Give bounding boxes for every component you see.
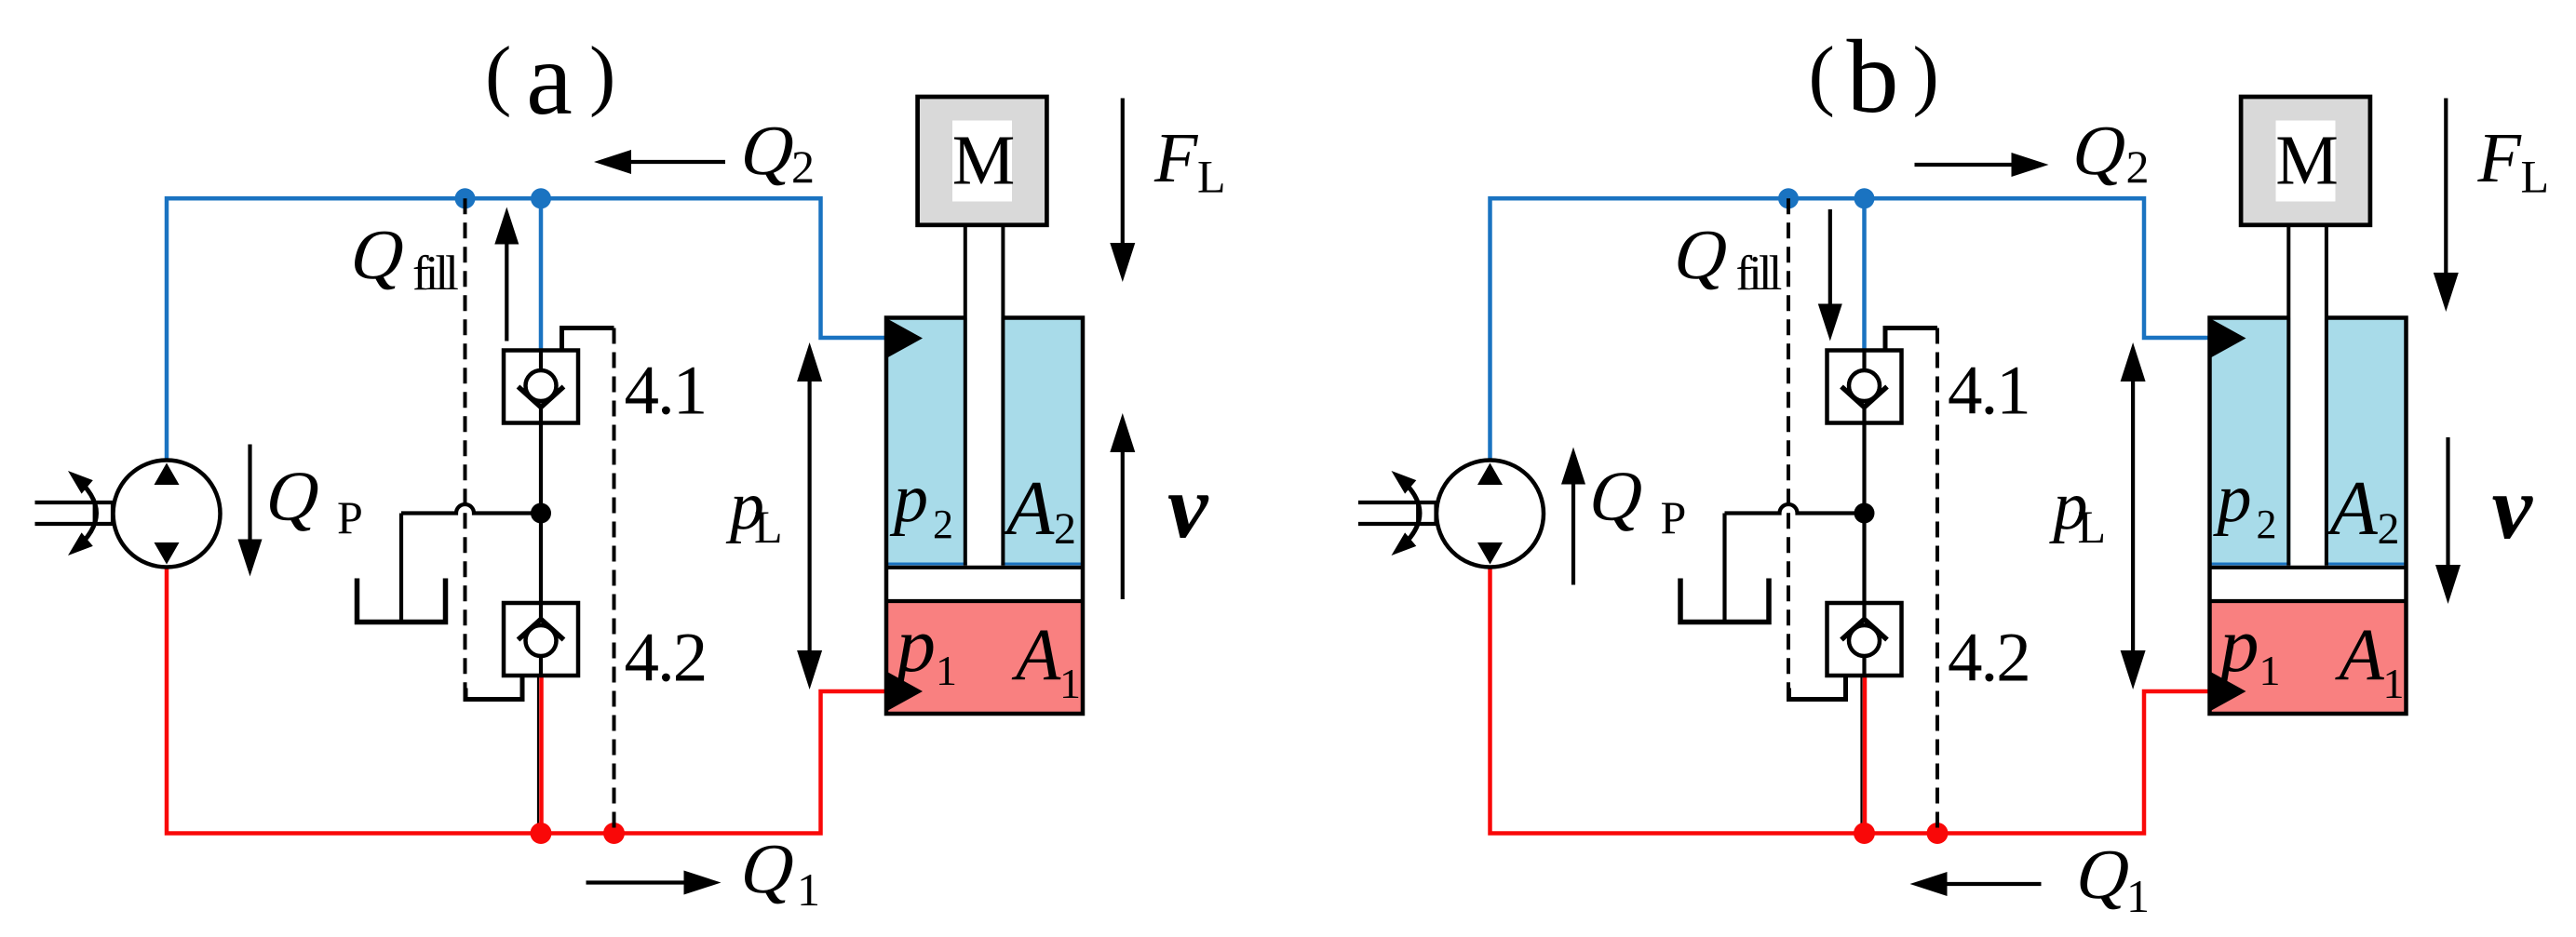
svg-text:1: 1 xyxy=(2126,870,2150,922)
mass block white label patch (b) xyxy=(2276,121,2336,202)
pump rotation arrowhead bottom (b) xyxy=(1392,532,1417,556)
wire between check valves (b) xyxy=(1862,423,1866,604)
wire red branch check valve 4.2 to bus (b) xyxy=(1863,676,1868,834)
pilot line dashed left (from blue bus to valve 4.2 pilot) (b) xyxy=(1787,198,1790,688)
check valve 4.2 seat chevron (b) xyxy=(1841,620,1887,640)
cylinder piston top line (b) xyxy=(2210,566,2407,569)
svg-text:A: A xyxy=(1002,465,1055,552)
svg-text:4.2: 4.2 xyxy=(1948,620,2030,697)
cylinder cap-side chamber fill p2 (b) xyxy=(2210,318,2407,566)
svg-text:1: 1 xyxy=(1059,660,1081,707)
wire black centerline under valve 4.2 (b) xyxy=(1860,676,1862,831)
cylinder red port arrowhead (b) xyxy=(2211,672,2246,711)
pump rotation arrowhead top (b) xyxy=(1392,471,1417,494)
check valve 4.2 inlet stub (a) xyxy=(539,603,543,620)
svg-text:(: ( xyxy=(485,31,511,118)
v velocity arrow (up) (a) xyxy=(1121,448,1125,599)
wire red return line pump-to-bus-to-cylinder-port (b) xyxy=(1490,568,2211,834)
svg-text:M: M xyxy=(2275,121,2339,199)
pilot line dashed right (from valve 4.1 pilot to red bus) (a) xyxy=(613,328,616,834)
QP pump flow arrow (down) (a) xyxy=(248,445,251,542)
check valve 4.2 box (a) xyxy=(504,603,578,676)
cylinder piston rod outlines (a) xyxy=(965,225,1004,566)
node black junction dot (b) xyxy=(1854,503,1875,524)
mass block white label patch (a) xyxy=(952,121,1012,202)
wire red branch check valve 4.2 to bus (a) xyxy=(539,676,544,834)
svg-text:A: A xyxy=(2335,615,2385,696)
wire blue supply line pump-to-bus-to-cylinder-port (b) xyxy=(1490,198,2211,460)
pump rotation arrowhead bottom (a) xyxy=(68,532,93,556)
svg-text:(: ( xyxy=(1809,31,1835,118)
svg-text:P: P xyxy=(337,491,363,543)
node blue junction dot right (a) xyxy=(531,188,551,208)
pilot line dashed left (from blue bus to valve 4.2 pilot) (a) xyxy=(464,198,467,688)
svg-text:2: 2 xyxy=(1054,504,1076,554)
check valve 4.1 box (a) xyxy=(504,351,578,423)
wire blue branch bus to check valve 4.1 (a) xyxy=(539,198,544,350)
cylinder piston bottom line (a) xyxy=(886,599,1083,603)
Q2 flow arrow (right) (b) xyxy=(1915,163,2014,167)
mass block M (b) xyxy=(2241,97,2370,225)
cylinder rod-side chamber fill p1 (b) xyxy=(2210,601,2407,714)
check valve 4.2 outlet stub (a) xyxy=(539,656,543,676)
svg-text:2: 2 xyxy=(2126,141,2150,193)
cylinder barrel outline (a) xyxy=(886,318,1083,715)
check valve 4.2 outlet stub (b) xyxy=(1862,656,1866,676)
pump bidirectional rotation arrow arc (a) xyxy=(74,476,97,550)
svg-text:F: F xyxy=(2477,119,2523,197)
node black junction dot (a) xyxy=(531,503,551,524)
node blue junction dot left (a) xyxy=(455,188,476,208)
pump top port triangle (a) xyxy=(155,463,180,486)
check valve 4.1 inlet stub (b) xyxy=(1862,351,1866,372)
svg-text:4.1: 4.1 xyxy=(625,353,707,430)
svg-text:4.1: 4.1 xyxy=(1948,353,2030,430)
wire red return line pump-to-bus-to-cylinder-port (a) xyxy=(167,568,887,834)
svg-text:2: 2 xyxy=(2257,502,2277,547)
pump drive shaft (b) xyxy=(1358,502,1436,524)
pump bidirectional rotation arrow arc (b) xyxy=(1398,476,1421,550)
wire black centerline under valve 4.2 (a) xyxy=(537,676,539,831)
svg-text:b: b xyxy=(1847,20,1899,135)
svg-text:F: F xyxy=(1153,119,1199,197)
cylinder cap-side chamber blue bottom edge (a) xyxy=(888,563,1081,566)
cylinder blue port arrowhead (a) xyxy=(887,319,923,358)
label QP (b) xyxy=(1582,457,1652,536)
svg-text:L: L xyxy=(2521,150,2550,202)
pump top port triangle (b) xyxy=(1477,463,1503,486)
cylinder red port arrowhead (a) xyxy=(887,672,923,711)
cylinder piston rod outlines (b) xyxy=(2288,225,2326,566)
check valve 4.1 outlet stub (b) xyxy=(1862,408,1866,423)
svg-text:L: L xyxy=(754,501,783,553)
v velocity arrow (down) (b) xyxy=(2446,437,2449,569)
svg-text:v: v xyxy=(1167,457,1209,557)
svg-text:1: 1 xyxy=(2259,647,2281,694)
pump circle (a) xyxy=(114,461,221,568)
check valve 4.2 ball circle (a) xyxy=(526,625,557,656)
pilot horizontal line with jump-over hump (a) xyxy=(401,504,541,514)
label Qfill (a) xyxy=(344,215,414,294)
svg-text:L: L xyxy=(2078,501,2107,553)
svg-text:p: p xyxy=(2216,602,2259,689)
Qfill charge flow arrow (up) (a) xyxy=(505,242,508,341)
check valve 4.1 inlet stub (a) xyxy=(539,351,543,372)
svg-text:A: A xyxy=(2326,465,2379,552)
node red junction dot right (b) xyxy=(1927,823,1949,844)
cylinder barrel outline (b) xyxy=(2210,318,2407,715)
pump rotation arrowhead top (a) xyxy=(68,471,93,494)
svg-text:fill: fill xyxy=(1736,247,1782,301)
valve 4.1 pilot connector (a) xyxy=(562,328,614,351)
check valve 4.1 outlet stub (a) xyxy=(539,408,543,423)
node blue junction dot left (b) xyxy=(1778,188,1799,208)
Qfill charge flow arrow (down) (b) xyxy=(1828,209,1832,307)
check valve 4.1 box (b) xyxy=(1827,351,1902,423)
svg-text:2: 2 xyxy=(933,502,953,547)
cylinder piston rod white channel (a) xyxy=(967,225,1002,566)
node red junction dot left (b) xyxy=(1854,823,1875,844)
pilot horizontal line with jump-over hump (b) xyxy=(1725,504,1865,514)
check valve 4.1 ball circle (a) xyxy=(526,370,557,401)
label Q1 (b) xyxy=(2069,835,2139,914)
check valve 4.2 box (b) xyxy=(1827,603,1902,676)
check valve 4.2 seat chevron (a) xyxy=(519,620,564,640)
cylinder cap-side chamber fill p2 (a) xyxy=(886,318,1083,566)
svg-text:M: M xyxy=(952,121,1016,199)
cylinder cap-side chamber blue bottom edge (b) xyxy=(2212,563,2405,566)
cylinder rod-side chamber fill p1 (a) xyxy=(886,601,1083,714)
svg-text:2: 2 xyxy=(2378,504,2400,554)
check valve 4.1 seat chevron (b) xyxy=(1841,387,1887,408)
spring bracket (b) xyxy=(1680,579,1769,622)
FL load force arrow (a) xyxy=(1121,99,1125,248)
check valve 4.2 ball circle (b) xyxy=(1849,625,1880,656)
valve 4.2 pilot connector (b) xyxy=(1789,676,1846,700)
check valve 4.1 ball circle (b) xyxy=(1849,370,1880,401)
label Q2 (b) xyxy=(2065,111,2136,190)
pump bottom port triangle (b) xyxy=(1477,542,1503,565)
label Qfill (b) xyxy=(1666,215,1737,294)
QP pump flow arrow (up) (b) xyxy=(1571,484,1575,585)
label Q2 (a) xyxy=(734,111,804,190)
node red junction dot right (a) xyxy=(603,823,625,844)
label Q1 (a) xyxy=(734,829,804,908)
svg-text:L: L xyxy=(1197,150,1226,202)
wire blue branch bus to check valve 4.1 (b) xyxy=(1862,198,1867,350)
svg-text:4.2: 4.2 xyxy=(625,620,707,697)
spring pilot stem (a) xyxy=(399,514,403,622)
node red junction dot left (a) xyxy=(531,823,552,844)
svg-text:2: 2 xyxy=(791,141,815,193)
svg-text:1: 1 xyxy=(2383,660,2405,707)
cylinder piston top line (a) xyxy=(886,566,1083,569)
node blue junction dot right (b) xyxy=(1854,188,1875,208)
svg-text:fill: fill xyxy=(412,247,458,301)
Q1 flow arrow (right) (a) xyxy=(587,880,687,884)
check valve 4.2 inlet stub (b) xyxy=(1862,603,1866,620)
FL load force arrow (b) xyxy=(2444,99,2448,278)
svg-text:a: a xyxy=(526,21,573,137)
spring pilot stem (b) xyxy=(1722,514,1726,622)
svg-text:v: v xyxy=(2492,458,2534,558)
cylinder piston rod white channel (b) xyxy=(2290,225,2325,566)
label QP (a) xyxy=(259,457,330,536)
valve 4.1 pilot connector (b) xyxy=(1885,328,1937,351)
svg-text:P: P xyxy=(1661,491,1687,543)
svg-text:1: 1 xyxy=(797,863,820,916)
svg-text:p: p xyxy=(2213,461,2252,537)
svg-text:A: A xyxy=(1011,615,1061,696)
svg-text:): ) xyxy=(589,31,615,118)
svg-text:): ) xyxy=(1913,31,1939,118)
pump drive shaft (a) xyxy=(35,502,114,524)
check valve 4.1 seat chevron (a) xyxy=(519,387,564,408)
Q1 flow arrow (left) (b) xyxy=(1946,882,2042,886)
svg-text:p: p xyxy=(892,602,936,689)
pL double-headed arrow (b) xyxy=(2131,372,2135,656)
pump bottom port triangle (a) xyxy=(155,542,180,565)
wire blue supply line pump-to-bus-to-cylinder-port (a) xyxy=(167,198,887,460)
spring bracket (a) xyxy=(357,579,446,622)
svg-text:1: 1 xyxy=(936,647,957,694)
Q2 flow arrow (left) (a) xyxy=(628,160,725,164)
mass block M (a) xyxy=(918,97,1047,225)
valve 4.2 pilot connector (a) xyxy=(465,676,522,700)
wire between check valves (a) xyxy=(539,423,543,604)
svg-text:p: p xyxy=(889,461,928,537)
pump circle (b) xyxy=(1436,461,1544,568)
pilot line dashed right (from valve 4.1 pilot to red bus) (b) xyxy=(1935,328,1939,834)
cylinder blue port arrowhead (b) xyxy=(2211,319,2246,358)
pL double-headed arrow (a) xyxy=(807,372,811,656)
cylinder piston bottom line (b) xyxy=(2210,599,2407,603)
